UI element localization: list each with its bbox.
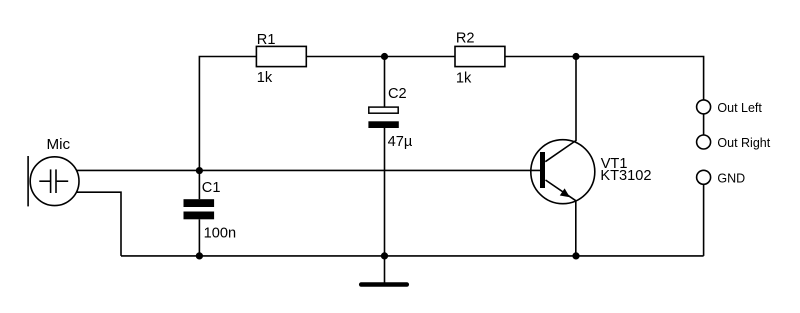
svg-text:1k: 1k bbox=[456, 71, 472, 87]
svg-text:R2: R2 bbox=[456, 31, 475, 47]
wire: VT1 collector lead from top rail bbox=[545, 57, 576, 162]
capacitor C1 lower plate bbox=[184, 212, 215, 220]
capacitor C2 negative plate (filled) bbox=[368, 121, 398, 128]
svg-text:47µ: 47µ bbox=[388, 134, 413, 150]
node: junction top rail / C2 bbox=[381, 53, 388, 60]
wire: VT1 emitter lead to bottom rail bbox=[546, 180, 576, 256]
microphone Mic body circle bbox=[30, 157, 79, 206]
capacitor C1 upper plate bbox=[184, 199, 215, 207]
microphone Mic internal capacitor left lead bbox=[39, 180, 50, 182]
svg-text:C1: C1 bbox=[202, 180, 221, 196]
wire: left vertical rail from signal node up, then top rail to R1 left pin bbox=[199, 57, 256, 171]
wire: GND terminal to bottom rail bbox=[703, 184, 705, 256]
wire: C1 lower lead bbox=[198, 219, 200, 256]
wire: ground symbol stub bbox=[384, 256, 386, 283]
node: junction top rail / VT1 collector bbox=[572, 53, 579, 60]
svg-text:Out Left: Out Left bbox=[717, 101, 762, 115]
terminal GND bbox=[697, 170, 711, 184]
svg-text:KT3102: KT3102 bbox=[600, 168, 651, 184]
wire: C2 lower lead to bottom rail bbox=[384, 128, 386, 256]
wire: C1 upper lead bbox=[198, 171, 200, 200]
wire: top rail from R2 right pin to right rail, down to Out Left terminal bbox=[505, 57, 703, 101]
transistor VT1 body circle bbox=[531, 140, 595, 204]
wire: signal line from Mic upper lead to VT1 base bbox=[75, 169, 540, 171]
svg-text:Mic: Mic bbox=[47, 136, 71, 153]
svg-text:100n: 100n bbox=[204, 226, 236, 242]
microphone Mic internal capacitor right lead bbox=[57, 180, 69, 182]
node: junction bottom rail / VT1 emitter bbox=[572, 252, 579, 259]
node: junction signal line / C1 bbox=[196, 167, 203, 174]
microphone Mic internal capacitor left plate bbox=[50, 169, 52, 193]
terminal Out Left bbox=[697, 100, 711, 114]
svg-text:GND: GND bbox=[717, 171, 745, 185]
microphone Mic diaphragm line bbox=[27, 156, 29, 206]
transistor VT1 emitter arrowhead bbox=[560, 188, 570, 197]
svg-text:1k: 1k bbox=[257, 70, 273, 86]
svg-text:Out Right: Out Right bbox=[717, 136, 770, 150]
wire: top rail from R1 right pin to R2 left pin bbox=[306, 56, 455, 58]
resistor R2 bbox=[455, 46, 505, 66]
capacitor C2 positive plate (outlined) bbox=[369, 107, 398, 113]
svg-text:C2: C2 bbox=[388, 86, 407, 102]
wire: link between Out Left and Out Right terminals bbox=[703, 114, 705, 135]
wire: C2 upper lead from top rail bbox=[384, 57, 386, 108]
microphone Mic internal capacitor right plate bbox=[55, 169, 57, 193]
node: junction bottom rail / C1 bbox=[196, 252, 203, 259]
wire: Mic lower lead to bottom rail bbox=[76, 192, 122, 256]
resistor R1 bbox=[256, 46, 306, 66]
ground symbol bar bbox=[361, 282, 407, 287]
transistor VT1 base bar bbox=[540, 152, 545, 188]
node: junction bottom rail / ground symbol bbox=[381, 252, 388, 259]
svg-text:R1: R1 bbox=[257, 32, 276, 48]
terminal Out Right bbox=[697, 135, 711, 149]
wire: bottom ground rail bbox=[121, 255, 704, 257]
